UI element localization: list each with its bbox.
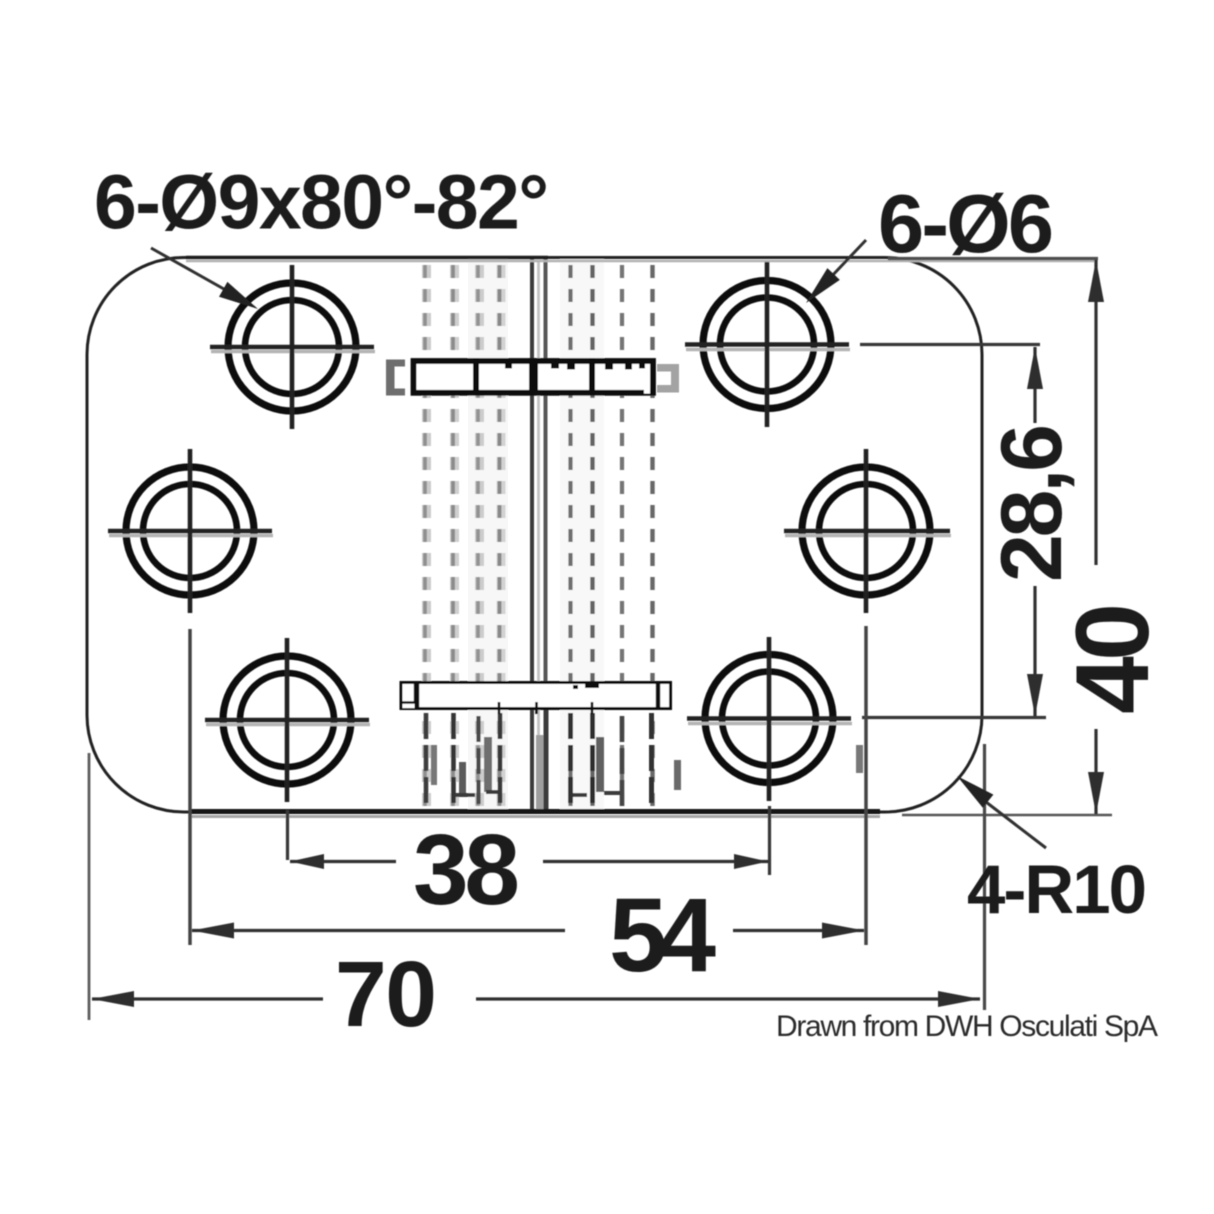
darker dashed remnants below lower knuckle bar — [426, 713, 652, 812]
leader for 4-R10 label — [986, 802, 1046, 848]
plate outline (rounded rectangle) — [87, 258, 982, 813]
notch on lower bar top edge — [585, 683, 599, 689]
svg-text:70: 70 — [335, 942, 437, 1046]
svg-text:6-Ø6: 6-Ø6 — [878, 177, 1054, 270]
hole bottom-right — [687, 637, 852, 801]
left extension for 70 dim — [88, 753, 91, 1020]
hole top-left — [210, 265, 375, 429]
dimension 28,6 line — [1033, 347, 1036, 716]
ticks crossing lower bar bottom edge — [498, 702, 501, 714]
svg-text:6-Ø9x80°-82°: 6-Ø9x80°-82° — [94, 160, 549, 246]
gray scan shadow under top edge — [186, 260, 1096, 263]
extension below bottom-left hole for 38 dim — [286, 810, 289, 860]
hole middle-right — [784, 449, 951, 613]
light scan bands in knuckle area — [468, 258, 508, 812]
dimension 54 line — [192, 929, 864, 932]
hole top-right — [685, 262, 850, 427]
smudge blobs on dashed lines — [431, 737, 863, 794]
lower knuckle bar — [401, 681, 671, 714]
extension below middle-left hole for 54 dim — [188, 629, 192, 945]
hole bottom-left — [205, 638, 370, 802]
extension line from top-right hole centre to 28,6 dim — [860, 343, 1040, 346]
dimension 70 line — [92, 997, 980, 1000]
gray scan shadow under bottom edge — [190, 815, 880, 818]
smudge feet on dashed lines — [455, 792, 620, 795]
bottom-left step notch of lower bar — [403, 702, 415, 708]
right extension for 70 dim — [983, 744, 986, 1010]
bottom edge overdraw (darker/thicker) — [190, 809, 880, 814]
hole middle-left — [108, 449, 273, 613]
svg-text:4-R10: 4-R10 — [967, 851, 1147, 928]
hinge pin centerline (double solid) — [530, 258, 534, 812]
leader for 6-Ø6 label — [830, 240, 866, 278]
upper knuckle bar — [414, 358, 654, 395]
extension line from bottom-right hole centre to 28,6 dim — [862, 716, 1046, 719]
svg-text:Drawn from DWH Osculati SpA: Drawn from DWH Osculati SpA — [776, 1010, 1158, 1043]
hidden dashed lines, right group — [571, 258, 653, 812]
faint ghost line between pin lines — [537, 262, 540, 810]
top edge overdraw (darker left half) — [186, 256, 548, 260]
small notches on upper bar — [505, 364, 512, 369]
upper bar right gray bracket — [657, 364, 679, 393]
gray fill between pin lines below lower bar — [536, 735, 546, 812]
leader for 6-Ø9 label — [151, 248, 231, 293]
svg-text:40: 40 — [1055, 603, 1171, 714]
extension below bottom-right hole for 38 dim — [768, 806, 771, 875]
top extension for 40 dim — [888, 257, 1098, 260]
upper bar left gray bracket — [386, 360, 405, 396]
hidden dashed lines (hinge knuckle), left group — [425, 258, 501, 812]
dimension 40 line — [1094, 260, 1097, 814]
svg-text:28,6: 28,6 — [984, 424, 1080, 582]
svg-text:54: 54 — [609, 877, 716, 994]
extension below middle-right hole for 54 dim — [864, 626, 868, 945]
bottom extension for 40 dim — [902, 814, 1112, 817]
dimension 38 line — [290, 860, 768, 863]
svg-text:38: 38 — [413, 814, 520, 926]
